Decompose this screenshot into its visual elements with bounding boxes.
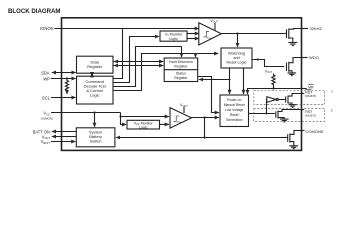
- wire bottom rail to COMONE transistor: [205, 137, 289, 139]
- wire V2 monitor output 2: [187, 38, 199, 40]
- svg-text:Switch: Switch: [90, 139, 102, 144]
- transistor Q2 WDO driver: [286, 63, 288, 72]
- wire fault register top feed: [195, 54, 197, 58]
- svg-text:SCL: SCL: [42, 96, 51, 101]
- wire watchdog second output to power-on block: [243, 68, 245, 94]
- svg-text:SDA: SDA: [41, 71, 50, 76]
- svg-text:Logic: Logic: [169, 37, 178, 41]
- wire WP into command block: [51, 78, 76, 80]
- wire watchdog bottom to status register: [199, 68, 230, 80]
- outer box: [62, 18, 302, 151]
- pin 32KHZ: [302, 28, 309, 30]
- node MR pullup junction: [272, 87, 274, 89]
- wire command out riser 2 to V2 monitor input: [113, 37, 159, 83]
- wire VBATT into switch: [51, 141, 75, 143]
- svg-text:32KHZ: 32KHZ: [310, 26, 323, 31]
- svg-text:Reset: Reset: [230, 113, 239, 117]
- wire data register to fault register bus 1: [113, 61, 163, 63]
- svg-text:Register: Register: [174, 76, 188, 80]
- svg-text:VREF: VREF: [177, 121, 183, 124]
- wire VCC to comparator upper input: [121, 113, 169, 117]
- svg-text:VREF: VREF: [207, 36, 213, 39]
- node reset driver tee: [266, 113, 268, 115]
- ground under Q1: [288, 43, 297, 46]
- wire SDA bidirectional: [53, 72, 76, 74]
- block watchdog and reset logic: [221, 48, 252, 68]
- hysteresis glyph bottom comparator: [173, 116, 179, 121]
- dashed box DS1670 option: [254, 90, 325, 104]
- svg-text:WP: WP: [43, 77, 50, 82]
- svg-text:VBATT: VBATT: [41, 139, 51, 145]
- wire watchdog output to WDO transistor: [252, 60, 284, 67]
- wire bottom comparator output to power-on block: [192, 117, 219, 119]
- block V2 monitor logic: [160, 31, 187, 41]
- svg-text:IGNON: IGNON: [40, 26, 53, 31]
- node VCC monitor tap: [119, 115, 121, 117]
- svg-text:Register: Register: [87, 64, 103, 69]
- hysteresis glyph top comparator: [203, 32, 209, 37]
- svg-text:(V1MON): (V1MON): [41, 116, 53, 120]
- pin WDO: [302, 57, 308, 59]
- wire VCC down into VCC monitor logic: [121, 117, 127, 125]
- wire VCC rail: [51, 112, 121, 114]
- pin MR: [302, 88, 307, 90]
- block VCC monitor logic: [127, 120, 160, 129]
- wire command out riser 3 to fault register top: [113, 47, 182, 87]
- block data register: [77, 56, 114, 73]
- resistor WP pulldown: [66, 77, 68, 79]
- wire top comparator output: [221, 33, 284, 35]
- node watchdog output: [257, 58, 259, 60]
- wire inverter to Q3 gate: [278, 99, 285, 101]
- svg-text:(DS1671): (DS1671): [305, 113, 316, 117]
- wire power-on output to reset drivers: [249, 113, 275, 115]
- inverter U1: [267, 97, 276, 103]
- dashed box DS1671 option: [254, 109, 325, 122]
- wire bottom rail to system battery switch: [116, 137, 205, 139]
- wire SCL into command block: [51, 97, 76, 99]
- wire data register to command block vertical bidirectional: [91, 73, 93, 76]
- svg-text:COMONE: COMONE: [306, 129, 324, 134]
- wire comparator output down to bottom rail: [204, 118, 206, 138]
- svg-text:Watchdog: Watchdog: [228, 52, 245, 56]
- wire VOUT out of switch: [52, 136, 77, 138]
- ground under Q3: [289, 105, 297, 108]
- transistor Q5 COMONE driver: [287, 134, 289, 142]
- block power-on manual reset low voltage reset generation: [220, 95, 249, 127]
- node watchdog status tee: [229, 79, 231, 81]
- pin RST DS1670: [302, 93, 305, 95]
- wire command out riser 1 to IGNON line: [113, 29, 123, 79]
- node VCC branch: [93, 111, 95, 113]
- wire MR into power-on block: [248, 89, 302, 95]
- svg-text:Generation: Generation: [226, 118, 243, 122]
- wire watchdog bottom to power-on block: [229, 80, 231, 94]
- svg-text:VOUT: VOUT: [265, 70, 273, 75]
- wire V2 monitor output 1: [187, 33, 199, 35]
- svg-text:RST: RST: [305, 90, 313, 94]
- svg-text:8: 8: [331, 109, 333, 113]
- svg-text:Logic: Logic: [139, 126, 148, 130]
- svg-text:VOUT: VOUT: [210, 19, 218, 24]
- svg-text:Register: Register: [174, 64, 188, 68]
- svg-text:RST: RST: [305, 110, 313, 114]
- wire comparator output down to watchdog top: [237, 34, 239, 48]
- transistor Q1 32KHZ driver: [284, 33, 286, 35]
- transistor Q3 RST driver: [285, 96, 287, 102]
- svg-text:MR: MR: [308, 85, 314, 89]
- node bottom rail: [203, 136, 205, 138]
- wire BATT ON out of switch: [52, 131, 77, 133]
- node comparator output branch: [236, 32, 238, 34]
- node comparator output: [203, 116, 205, 118]
- pin RST DS1671: [302, 109, 305, 111]
- block command decode test and control logic: [77, 76, 114, 104]
- op-amp bottom comparator: [170, 108, 192, 129]
- wire status register to power-on block left: [198, 77, 219, 113]
- wire VCC monitor output to comparator: [160, 123, 169, 125]
- pin COMONE: [302, 130, 305, 132]
- block system battery switch: [76, 128, 115, 147]
- svg-text:WDO: WDO: [309, 55, 319, 60]
- wire VCC down to system battery switch: [94, 113, 96, 127]
- op-amp top comparator: [199, 23, 222, 45]
- svg-text:Manual Reset: Manual Reset: [224, 103, 245, 107]
- svg-text:Logic: Logic: [90, 93, 100, 98]
- wire data register to fault register bus 2: [113, 65, 163, 67]
- wire riser to inverter: [266, 100, 268, 114]
- svg-text:Low Voltage: Low Voltage: [225, 108, 244, 112]
- svg-text:and: and: [233, 56, 239, 60]
- svg-text:Power-on: Power-on: [227, 98, 242, 102]
- svg-text:3: 3: [331, 90, 333, 94]
- block fault detection and status register: [164, 58, 198, 82]
- wire IGNON line to comparator + input: [55, 28, 199, 30]
- wire command out riser 4 to watchdog: [113, 54, 218, 91]
- node riser2 on bus: [129, 61, 131, 63]
- svg-text:(DS1670): (DS1670): [305, 94, 316, 98]
- ground under Q2: [288, 73, 297, 76]
- ground under Q5: [289, 146, 298, 149]
- ground under Q4: [280, 119, 289, 122]
- svg-text:BLOCK DIAGRAM: BLOCK DIAGRAM: [8, 8, 60, 15]
- transistor Q4 RST driver: [275, 111, 277, 118]
- svg-text:Reset Logic: Reset Logic: [226, 61, 246, 65]
